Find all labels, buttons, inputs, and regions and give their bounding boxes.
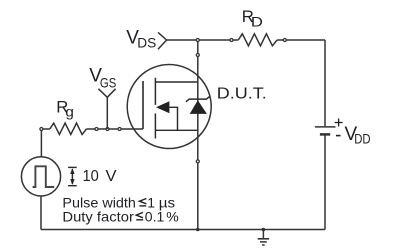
- label VDD: [345, 124, 371, 147]
- svg-text:%: %: [166, 208, 178, 224]
- svg-text:10: 10: [83, 168, 99, 185]
- label pulse width: [62, 194, 175, 210]
- svg-text:Duty factor: Duty factor: [62, 208, 134, 224]
- pulse generator circle: [21, 157, 60, 196]
- body diode cathode bar with zener ticks: [186, 96, 210, 101]
- probe VGS arrow and stem: [98, 89, 115, 129]
- junction dot source-to-bottom-rail: [196, 228, 200, 232]
- terminal circle source package: [196, 160, 199, 163]
- svg-text:g: g: [65, 105, 74, 120]
- wire drain-source vertical: [197, 40, 199, 230]
- svg-text:D.U.T.: D.U.T.: [217, 86, 267, 103]
- terminal circle RD left: [230, 39, 233, 42]
- svg-text:0.1: 0.1: [145, 208, 165, 224]
- probe VDS arrow: [158, 32, 167, 49]
- MOSFET channel bar upper segment: [154, 78, 156, 105]
- amplitude arrow 10V: [68, 167, 77, 185]
- MOSFET channel bar lower segment: [154, 113, 156, 138]
- MOSFET gate bar: [142, 81, 144, 129]
- MOSFET drain stub: [155, 81, 197, 83]
- MOSFET body connection wire: [169, 107, 177, 130]
- battery plus sign: [335, 119, 343, 127]
- MOSFET source stub: [155, 129, 197, 131]
- wire right rail battery to bottom corner: [324, 134, 326, 229]
- MOSFET body arrow: [156, 101, 169, 113]
- terminal circle pulse-gen output: [40, 128, 43, 131]
- ground symbol: [258, 230, 269, 246]
- wire right rail down to battery: [324, 40, 326, 126]
- body diode triangle: [190, 100, 207, 114]
- terminal circle VGS tap: [106, 128, 109, 131]
- terminal circle drain top junction: [196, 39, 199, 42]
- junction dot ground: [262, 228, 266, 232]
- label VGS: [89, 65, 116, 90]
- label Rg: [56, 98, 74, 120]
- svg-text:D: D: [251, 14, 263, 30]
- wire top rail VDS-probe to RD to right corner: [167, 39, 325, 41]
- terminal circle Rg right: [95, 128, 98, 131]
- amplitude arrowheads: [70, 168, 74, 185]
- wire pulse-gen to bottom rail: [40, 196, 42, 230]
- label duty factor: [62, 208, 178, 224]
- label RD: [242, 7, 263, 29]
- label VDS: [126, 27, 156, 50]
- terminal circle drain package: [196, 54, 199, 57]
- wire gate rail: [41, 128, 50, 130]
- terminal circle RD right: [283, 39, 286, 42]
- pulse generator waveform: [33, 166, 55, 187]
- label 10 V: [83, 168, 118, 185]
- svg-text:GS: GS: [100, 75, 116, 91]
- svg-text:V: V: [106, 168, 118, 185]
- resistor Rg: [50, 123, 87, 134]
- svg-text:DD: DD: [354, 131, 370, 147]
- resistor RD: [238, 34, 277, 46]
- battery minus sign: [336, 135, 341, 137]
- wire pulse-gen to gate rail: [40, 131, 42, 158]
- svg-text:DS: DS: [137, 34, 156, 50]
- MOSFET D.U.T. body circle: [127, 65, 211, 149]
- battery VDD: [315, 127, 336, 134]
- wire bottom rail: [41, 229, 325, 231]
- terminal circle gate package: [118, 128, 121, 131]
- wire gate rail resistor to MOSFET: [87, 128, 143, 130]
